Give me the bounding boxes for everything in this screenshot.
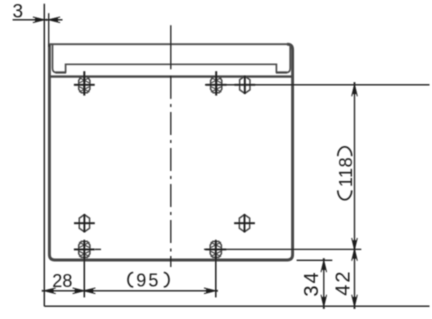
bolt B5 mid-right [234,214,255,232]
paren ) of (118) [338,147,352,156]
extension line for 3 (x=48.7) [48,13,50,47]
inner channel lip verticals and lip line [53,45,291,73]
paren ) of (95) [164,273,169,287]
paren ( of (118) [338,190,352,199]
plate outline (side+bottom edges thick) [49,44,292,260]
screw M6 bottom-left [74,240,95,258]
channel bottom segments [56,71,288,73]
svg-text:3: 3 [12,1,23,22]
dimension 3 line and arrows [13,19,63,21]
top bolt row line [205,84,430,86]
paren ( of (95) [128,273,133,287]
svg-text:42: 42 [332,269,354,295]
screw M1 centre line [83,71,85,95]
bolt B3 top-right [234,76,255,94]
screw M1 top-left [74,76,95,94]
svg-text:118: 118 [336,157,356,187]
plate top edge [49,43,287,45]
screw M2 top-middle [206,76,227,94]
svg-text:95: 95 [136,271,160,291]
bottom bolt row line [204,248,361,250]
bolt6 cross extension right [95,248,101,250]
extension line left (x=44.3) [43,4,45,306]
center line (dash-dot) [170,25,172,267]
svg-text:28: 28 [52,271,72,291]
baseline [44,305,429,307]
bolt column extension lines [83,240,85,298]
dimension 28 / (95) line [44,290,215,292]
screw M2 centre line [215,71,217,95]
bolt B4 mid-left [74,214,95,232]
flange hem bottom line [49,75,292,77]
screw M7 bottom-middle [205,240,226,258]
svg-text:34: 34 [301,270,323,296]
plate bottom extension line [297,259,333,261]
dimension 34 line [323,261,325,307]
dimension (118)/42 line [354,85,356,306]
